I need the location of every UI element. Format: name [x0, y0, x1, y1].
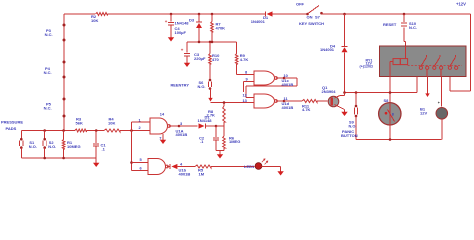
svg-text:4001B: 4001B [176, 132, 188, 137]
svg-text:1N4148: 1N4148 [198, 118, 213, 123]
svg-text:ON: ON [307, 14, 313, 19]
svg-text:8: 8 [392, 113, 394, 117]
svg-text:2.7K: 2.7K [207, 113, 216, 118]
svg-text:LED1: LED1 [244, 164, 255, 169]
svg-text:10K: 10K [91, 18, 98, 23]
svg-text:12V: 12V [420, 110, 427, 115]
svg-text:2N3904: 2N3904 [322, 89, 337, 94]
svg-text:S8: S8 [384, 98, 390, 103]
svg-text:4.7K: 4.7K [240, 57, 249, 62]
svg-text:(+)120Ω: (+)120Ω [360, 64, 373, 68]
svg-text:100µF: 100µF [175, 30, 187, 35]
svg-text:1N4001: 1N4001 [251, 19, 266, 24]
svg-text:+: + [438, 101, 440, 105]
svg-text:OFF: OFF [296, 1, 305, 6]
svg-text:10MEG: 10MEG [67, 144, 81, 149]
svg-text:+: + [181, 48, 184, 53]
svg-text:PADS: PADS [6, 126, 17, 131]
svg-text:470: 470 [212, 57, 219, 62]
svg-text:+12V: +12V [456, 1, 466, 6]
svg-text:N.C.: N.C. [44, 70, 52, 75]
svg-text:N.C.: N.C. [45, 32, 53, 37]
svg-text:N.C.: N.C. [409, 25, 417, 30]
svg-text:S7: S7 [315, 14, 321, 19]
svg-text:1M: 1M [199, 171, 205, 176]
svg-text:10K: 10K [108, 121, 115, 126]
svg-text:4001B: 4001B [179, 171, 191, 176]
svg-text:7: 7 [159, 135, 161, 140]
svg-text:RESET: RESET [383, 22, 397, 27]
svg-text:1N4001: 1N4001 [320, 47, 335, 52]
svg-text:D3: D3 [189, 17, 195, 22]
svg-text:4001B: 4001B [282, 105, 294, 110]
svg-text:KEY SWITCH: KEY SWITCH [299, 21, 324, 26]
svg-text:N.O.: N.O. [198, 84, 206, 89]
svg-text:N.O.: N.O. [48, 144, 56, 149]
svg-text:+: + [165, 19, 168, 24]
svg-text:4001B: 4001B [282, 82, 294, 87]
svg-text:REENTRY: REENTRY [171, 83, 190, 88]
svg-text:PRESSURE: PRESSURE [1, 120, 23, 125]
svg-text:N.O.: N.O. [29, 144, 37, 149]
svg-text:1N4148: 1N4148 [175, 21, 190, 26]
svg-text:N.O.: N.O. [349, 123, 357, 128]
svg-text:4.7K: 4.7K [302, 107, 311, 112]
svg-text:N.C.: N.C. [44, 106, 52, 111]
svg-text:BUTTON: BUTTON [341, 133, 358, 138]
svg-text:1MEG: 1MEG [229, 139, 240, 144]
svg-text:56K: 56K [76, 121, 83, 126]
svg-text:470K: 470K [216, 25, 226, 30]
svg-text:220µF: 220µF [194, 56, 206, 61]
